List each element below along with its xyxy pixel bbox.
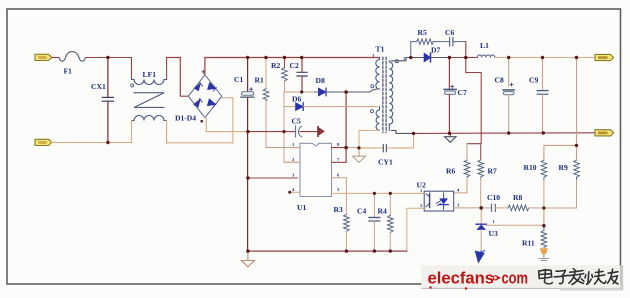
svg-text:R2: R2 xyxy=(271,61,280,70)
svg-text:com: com xyxy=(502,269,529,288)
transformer T1 core xyxy=(383,57,386,132)
resistor R10 xyxy=(541,160,547,226)
wire secondary bottom to VO- rail xyxy=(392,130,414,133)
ground arrow at drain/pin1 right (aux gnd) xyxy=(346,147,359,149)
capacitor C8 xyxy=(503,58,514,134)
svg-text:CY1: CY1 xyxy=(378,158,393,167)
resistor R2 xyxy=(282,58,288,93)
diode D7 xyxy=(424,53,449,62)
svg-text:C10: C10 xyxy=(487,193,500,202)
output terminal VO- xyxy=(595,130,614,136)
svg-text:C8: C8 xyxy=(495,76,504,85)
elecfans.com logo xyxy=(428,269,529,290)
resistor R4 xyxy=(388,193,394,251)
resistor R6 xyxy=(454,144,470,193)
wire D8 to drain node and primary bottom xyxy=(330,89,378,92)
wire D7 node to L1 xyxy=(449,57,477,59)
svg-text:R4: R4 xyxy=(378,207,387,216)
VO- rail xyxy=(414,132,596,135)
clamp line R2/C2 to D8 xyxy=(285,91,315,93)
capacitor CY1 xyxy=(359,133,414,151)
transformer T1 aux winding xyxy=(371,107,380,131)
svg-text:R7: R7 xyxy=(488,167,497,176)
primary ground arrow at bottom rail xyxy=(241,251,254,267)
designator labels xyxy=(64,28,568,248)
wire secondary top to D7 xyxy=(392,58,425,61)
svg-text:R5: R5 xyxy=(418,28,427,37)
orange ground port below R11 xyxy=(539,248,549,260)
resistor R3 xyxy=(344,214,350,251)
vertical R2/D6/C5 to U1 pin2 xyxy=(284,92,298,162)
LF1 bottom winding xyxy=(132,116,167,143)
capacitor CX1 xyxy=(102,97,113,101)
wire fuse to CX1 node xyxy=(86,57,108,59)
svg-text:LF1: LF1 xyxy=(143,70,157,79)
pin numbers xyxy=(292,53,496,224)
capacitor C7 xyxy=(444,58,456,134)
svg-text:D6: D6 xyxy=(292,95,301,104)
capacitor C5 xyxy=(248,126,317,137)
svg-text:D8: D8 xyxy=(316,76,325,85)
capacitor C9 xyxy=(537,58,548,134)
main + rail xyxy=(207,57,380,59)
resistor R11 xyxy=(541,226,547,248)
友 xyxy=(608,269,619,284)
input terminal J1 top xyxy=(35,54,52,60)
ground chevron below C7 xyxy=(445,137,456,143)
子 xyxy=(554,270,568,283)
input terminal J2 bottom xyxy=(35,139,52,145)
Chinese watermark 电子发烧友 (drawn strokes) xyxy=(539,269,618,285)
resistor R9 xyxy=(544,160,579,208)
电 xyxy=(539,270,553,284)
wire bottom input rail xyxy=(52,142,132,144)
svg-text:T1: T1 xyxy=(376,45,385,54)
primary bottom rail xyxy=(248,250,407,252)
capacitor C1 (bulk electrolytic) xyxy=(241,58,254,252)
svg-text:R9: R9 xyxy=(559,163,568,172)
svg-text:R1: R1 xyxy=(255,75,264,84)
resistor R1 xyxy=(263,58,297,148)
drain vertical to U1 xyxy=(345,92,347,162)
wire terminal to fuse xyxy=(52,57,59,59)
divider sense drop from V+ to R10/R9 xyxy=(544,58,577,161)
resistor R8 xyxy=(508,205,544,226)
svg-text:R3: R3 xyxy=(334,205,343,214)
wire CX1 leads xyxy=(107,58,109,143)
svg-text:R10: R10 xyxy=(524,163,537,172)
snubber R5 xyxy=(411,39,449,58)
svg-text:L1: L1 xyxy=(480,41,489,50)
transformer T1 secondary winding xyxy=(389,60,398,131)
svg-text:C4: C4 xyxy=(357,207,366,216)
LF1 core xyxy=(134,93,164,108)
wire bridge top corner to +rail xyxy=(205,58,207,75)
output V+ rail xyxy=(495,57,595,59)
snubber C6 xyxy=(450,38,466,58)
diode D8 xyxy=(315,88,331,95)
feedback sense wire from V+ rail xyxy=(466,58,481,144)
svg-text:CX1: CX1 xyxy=(91,82,106,91)
ground power port arrow (after C5) xyxy=(318,127,324,136)
svg-text:U1: U1 xyxy=(297,203,306,212)
svg-text:elecfans: elecfans xyxy=(428,269,495,288)
svg-text:C7: C7 xyxy=(458,88,467,97)
diode D6 xyxy=(284,103,378,110)
wire bridge bottom corner down xyxy=(205,118,248,132)
opto U2 xyxy=(407,191,481,251)
IC U1 xyxy=(248,143,424,214)
common-mode choke LF1 top winding xyxy=(131,58,167,87)
svg-text:C9: C9 xyxy=(529,76,538,85)
capacitor C4 xyxy=(369,193,380,251)
bridge rectifier D1-D4 xyxy=(188,75,222,118)
svg-text:D7: D7 xyxy=(431,46,440,55)
inductor L1 xyxy=(477,55,495,58)
capacitor C10 xyxy=(481,204,508,211)
svg-text:R8: R8 xyxy=(513,193,522,202)
primary ground arrow below CY1 node xyxy=(353,148,366,163)
wire aux winding bottom to CY1 node xyxy=(359,130,380,148)
svg-text:C5: C5 xyxy=(292,117,301,126)
wire top rail CX1 to LF1 xyxy=(108,57,132,59)
wire bottom LF1 to bridge right corner xyxy=(167,98,233,143)
watermark strip xyxy=(421,265,623,290)
capacitor C2 xyxy=(297,58,307,93)
wire top rail LF1 to bridge xyxy=(167,58,189,97)
svg-text:R6: R6 xyxy=(446,167,455,176)
plus mark at bridge top xyxy=(202,70,205,73)
svg-text:C1: C1 xyxy=(234,75,243,84)
烧 xyxy=(585,269,606,284)
output terminal VO+ xyxy=(577,54,614,60)
wire pin3 line from C1 vertical to U1 xyxy=(248,177,298,179)
svg-text:C2: C2 xyxy=(290,61,299,70)
TL431 U3 xyxy=(476,208,544,251)
发 xyxy=(569,269,584,285)
svg-text:U3: U3 xyxy=(489,229,498,238)
ground arrow blue below U3 xyxy=(475,250,484,262)
svg-text:C6: C6 xyxy=(445,28,454,37)
resistor R7 xyxy=(478,144,484,208)
transformer T1 primary winding xyxy=(371,58,380,90)
svg-text:R11: R11 xyxy=(522,239,535,248)
svg-text:D1-D4: D1-D4 xyxy=(175,114,196,123)
fuse F1 xyxy=(59,52,86,62)
svg-text:F1: F1 xyxy=(64,67,73,76)
